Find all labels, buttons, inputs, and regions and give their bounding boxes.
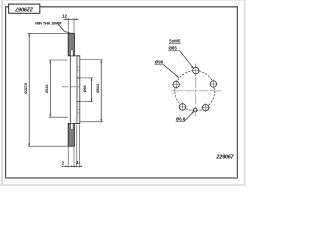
notch at hat junction bottom bbox=[71, 124, 74, 130]
dim hat diameter extension bottom bbox=[80, 121, 103, 123]
horizontal centerline bbox=[172, 90, 222, 92]
leader to top hole bbox=[180, 51, 194, 68]
dim outer diameter extension top bbox=[28, 32, 68, 34]
small hole bottom bbox=[193, 108, 197, 112]
bottom thickness extension lines bbox=[67, 146, 69, 167]
friction ring section top (hatched) bbox=[68, 33, 74, 56]
window edge right bbox=[244, 0, 246, 186]
svg-text:229067: 229067 bbox=[14, 6, 34, 12]
centre bore edge top bbox=[77, 77, 80, 79]
leader to small hole bbox=[184, 112, 194, 122]
dim hat lip extension top bbox=[49, 59, 68, 61]
notch at hat junction top bbox=[71, 50, 74, 56]
svg-text:229067: 229067 bbox=[215, 154, 234, 160]
bottom dim arrows bbox=[65, 166, 68, 168]
dim outer diameter extension bottom bbox=[28, 145, 68, 147]
frame bottom line bbox=[5, 177, 238, 179]
svg-text:12: 12 bbox=[62, 13, 68, 18]
bolt hole right bbox=[209, 80, 218, 89]
title box bbox=[9, 4, 40, 13]
dim bore extension top bbox=[80, 77, 93, 79]
vertical centerline bbox=[195, 64, 197, 117]
dim bore line bbox=[91, 78, 93, 102]
svg-text:5xM5: 5xM5 bbox=[169, 38, 181, 43]
dim 12 extension lines bbox=[67, 18, 69, 33]
dim hat lip extension bottom bbox=[49, 116, 68, 118]
leader to bolt circle bbox=[164, 65, 179, 78]
svg-text:Ø227.8: Ø227.8 bbox=[24, 83, 28, 94]
hat step bottom bbox=[73, 123, 80, 125]
svg-text:Ø98: Ø98 bbox=[155, 60, 164, 65]
hat plate outline bbox=[77, 56, 80, 124]
window edge top bbox=[0, 0, 246, 1]
svg-text:Ø116: Ø116 bbox=[45, 85, 49, 93]
dim 12 line bbox=[64, 18, 79, 20]
dim bore extension bottom bbox=[80, 101, 93, 103]
drawing frame bbox=[6, 7, 238, 178]
leader from note to ring face bbox=[58, 24, 71, 33]
axis dash line bbox=[62, 86, 80, 88]
dim hat diameter extension top bbox=[80, 59, 103, 61]
dim hat lip line bbox=[49, 60, 51, 117]
bolt circle (dashed) bbox=[175, 71, 215, 111]
dim outer diameter line bbox=[28, 33, 30, 146]
bolt hole left bbox=[172, 80, 181, 89]
window edge bottom bbox=[0, 184, 246, 186]
svg-text:Ø66: Ø66 bbox=[83, 85, 87, 92]
dim hat diameter line bbox=[100, 60, 102, 122]
bolt hole lower-right bbox=[201, 103, 210, 112]
bottom dim line bbox=[62, 165, 82, 167]
hat wall left line bbox=[69, 56, 71, 124]
friction ring section bottom (hatched) bbox=[68, 124, 74, 147]
bolt hole in hat (section) top bbox=[77, 67, 80, 71]
svg-text:Ø85: Ø85 bbox=[169, 46, 178, 51]
bolt hole in hat (section) bottom bbox=[77, 109, 80, 113]
hat step top bbox=[73, 55, 80, 57]
window edge left bbox=[2, 0, 3, 186]
bolt hole top bbox=[191, 66, 200, 75]
centre bore edge bottom bbox=[77, 101, 80, 103]
page background bbox=[0, 0, 246, 186]
svg-text:Ø64.5: Ø64.5 bbox=[96, 84, 100, 93]
bolt hole lower-left bbox=[178, 102, 187, 111]
